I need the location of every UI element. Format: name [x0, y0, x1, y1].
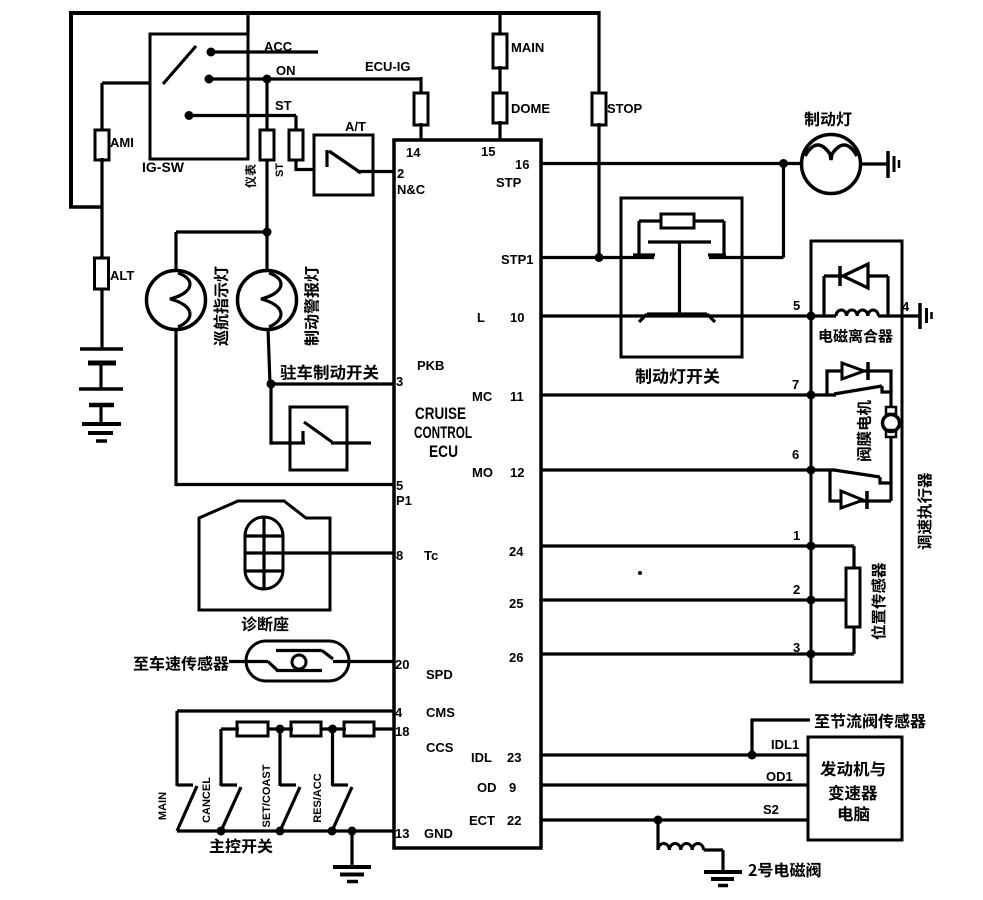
- actuator box 调速执行器: [811, 241, 902, 682]
- svg-text:6: 6: [792, 447, 799, 462]
- svg-text:5: 5: [793, 298, 800, 313]
- wire ST: [189, 114, 296, 117]
- wire pin12 MO: [541, 468, 836, 471]
- fuse STOP: [597, 11, 600, 95]
- node ST terminal: [185, 111, 194, 120]
- ignition switch IG-SW box: [150, 34, 248, 159]
- svg-text:20: 20: [395, 657, 409, 672]
- diode D2 (top): [827, 371, 891, 395]
- svg-text:9: 9: [509, 780, 516, 795]
- svg-text:5: 5: [396, 478, 403, 493]
- wire clutch to ground: [878, 314, 919, 317]
- resistor R1: [221, 727, 239, 730]
- wire: left border down: [69, 11, 73, 207]
- wire pin25 (wiper): [541, 598, 846, 601]
- svg-text:IG-SW: IG-SW: [142, 159, 185, 175]
- inductor: solenoid coil: [658, 844, 704, 851]
- switch CANCEL: [221, 787, 241, 831]
- svg-text:CRUISE: CRUISE: [415, 404, 466, 423]
- svg-text:22: 22: [507, 813, 521, 828]
- label 诊断座: [242, 616, 289, 631]
- svg-text:DOME: DOME: [511, 101, 550, 116]
- wire pin10 L to clutch coil: [541, 314, 836, 317]
- node ACC terminal: [207, 48, 216, 57]
- svg-text:3: 3: [793, 640, 800, 655]
- svg-text:STOP: STOP: [607, 101, 642, 116]
- svg-text:16: 16: [515, 157, 529, 172]
- svg-text:ECU-IG: ECU-IG: [365, 59, 411, 74]
- parking brake switch: [271, 384, 305, 443]
- op-amp: CRUISE CONTROL ECU box U1: [394, 140, 541, 848]
- label 巡航指示灯: [213, 266, 228, 345]
- svg-text:MAIN: MAIN: [157, 792, 169, 820]
- svg-text:15: 15: [481, 144, 495, 159]
- svg-text:8: 8: [396, 548, 403, 563]
- brake switch plunger: [648, 240, 711, 243]
- switch RES/ACC: [332, 787, 352, 831]
- label 制动灯开关: [635, 368, 719, 384]
- switch SET/COAST: [280, 787, 300, 831]
- label 至车速传感器: [134, 656, 229, 671]
- svg-text:IDL1: IDL1: [771, 737, 799, 752]
- svg-text:STP: STP: [496, 175, 522, 190]
- wire: ST fuse to A/T switch: [296, 168, 314, 171]
- wire: stub border to IG-SW: [246, 13, 249, 34]
- solenoid no.2: [654, 816, 663, 825]
- svg-text:N&C: N&C: [397, 182, 426, 197]
- label 2号电磁阀: [749, 862, 821, 877]
- svg-text:SET/COAST: SET/COAST: [261, 764, 273, 827]
- computer box 发动机与变速器电脑: [808, 737, 902, 840]
- wire ON / ECU-IG: [209, 77, 421, 80]
- wire pin26: [541, 652, 854, 655]
- inductor: clutch coil: [836, 310, 878, 316]
- svg-text:SPD: SPD: [426, 667, 453, 682]
- lamp 制动灯 (brake lamp): [802, 135, 861, 194]
- label 驻车制动开关: [280, 364, 378, 380]
- svg-text:13: 13: [395, 826, 409, 841]
- svg-text:CONTROL: CONTROL: [414, 423, 472, 442]
- svg-text:PKB: PKB: [417, 358, 444, 373]
- ground (clutch): [918, 303, 922, 329]
- svg-text:2: 2: [397, 166, 404, 181]
- wire pin22 ECT: [541, 818, 808, 821]
- node R2-R3: [328, 725, 337, 734]
- label 仪表 fuse: [245, 164, 256, 188]
- motor bottom blade: [834, 470, 880, 477]
- svg-text:CANCEL: CANCEL: [201, 777, 213, 823]
- wire: border to AMI line: [69, 205, 102, 209]
- svg-text:A/T: A/T: [345, 119, 366, 134]
- svg-text:RES/ACC: RES/ACC: [312, 773, 324, 823]
- svg-text:14: 14: [406, 145, 421, 160]
- svg-text:ON: ON: [276, 63, 296, 78]
- wire: AMI to battery: [100, 158, 103, 350]
- svg-text:OD1: OD1: [766, 769, 793, 784]
- label 主控开关: [210, 838, 273, 853]
- ground (battery): [82, 422, 121, 426]
- wire pin24: [541, 544, 854, 547]
- svg-text:10: 10: [510, 310, 524, 325]
- wire CANCEL drop: [219, 729, 222, 786]
- wire STP1: [541, 256, 654, 259]
- svg-text:CMS: CMS: [426, 705, 455, 720]
- fuse DOME: [498, 91, 501, 125]
- label 制动灯: [804, 112, 851, 127]
- fuse 仪表 (instrument): [263, 75, 272, 84]
- svg-text:18: 18: [395, 724, 409, 739]
- A/T switch blade: [329, 151, 361, 173]
- wire pin9 OD: [541, 783, 808, 786]
- label 调速执行器: [917, 473, 932, 550]
- brake lamp switch box 制动灯开关: [621, 198, 742, 357]
- wire pin16 STP to brake lamp: [541, 162, 802, 165]
- ground (brake lamp): [886, 151, 890, 178]
- fuse ECU-IG: [419, 77, 422, 95]
- svg-text:ECT: ECT: [469, 813, 495, 828]
- wire: top bus from battery feed: [69, 11, 599, 15]
- wire ACC: [211, 50, 318, 53]
- wire: IG-SW feed from AMI line: [102, 81, 150, 84]
- svg-text:4: 4: [395, 705, 403, 720]
- wire pin13 GND bus: [177, 829, 394, 832]
- svg-text:OD: OD: [477, 780, 497, 795]
- svg-text:CCS: CCS: [426, 740, 454, 755]
- wire lamp1 to P1 bus: [174, 328, 177, 486]
- battery: [80, 347, 123, 351]
- svg-text:3: 3: [396, 374, 403, 389]
- motor M: [886, 407, 896, 414]
- svg-text:S2: S2: [763, 802, 779, 817]
- switch MAIN: [177, 786, 197, 831]
- diode D1 across clutch: [822, 276, 825, 316]
- label 发动机与: [820, 761, 884, 777]
- svg-text:ST: ST: [274, 163, 286, 177]
- fuse AMI: [100, 83, 103, 132]
- svg-text:23: 23: [507, 750, 521, 765]
- IG-SW lever: [163, 46, 196, 84]
- svg-text:MC: MC: [472, 389, 493, 404]
- label 阀膜电机: [857, 400, 872, 461]
- svg-text:P1: P1: [396, 493, 412, 508]
- node R1-R2: [276, 725, 285, 734]
- wire pin8 Tc: [283, 551, 394, 554]
- wire STOP to STP1: [597, 123, 600, 258]
- ground (solenoid): [704, 870, 742, 874]
- svg-text:24: 24: [509, 544, 524, 559]
- svg-text:MO: MO: [472, 465, 493, 480]
- svg-text:7: 7: [792, 377, 799, 392]
- fuse MAIN: [498, 13, 501, 36]
- resistor R3: [344, 722, 374, 736]
- wire pin5 P1: [176, 483, 394, 486]
- lamp 制动警报灯: [238, 271, 297, 330]
- node ON terminal: [205, 75, 214, 84]
- resistor in brake switch: [661, 214, 694, 228]
- wire lamp2 to pin3: [268, 328, 270, 384]
- A/T switch box: [314, 135, 373, 195]
- wire MAIN to DOME: [498, 66, 501, 95]
- label 制动警报灯: [304, 266, 319, 345]
- wire lamp feed: [176, 230, 267, 233]
- wire lamp to ground: [860, 162, 888, 165]
- fuse ALT: [100, 256, 103, 291]
- wire pin23 IDL: [541, 753, 808, 756]
- diode D3 (bottom): [830, 470, 891, 501]
- svg-text:1: 1: [793, 528, 800, 543]
- label 电磁离合器: [820, 329, 893, 343]
- svg-text:26: 26: [509, 650, 523, 665]
- wire pin11 MC: [541, 393, 836, 396]
- svg-text:L: L: [477, 310, 485, 325]
- wire pin3 PKB: [271, 382, 394, 385]
- svg-text:ECU: ECU: [429, 442, 458, 461]
- label 电脑: [839, 806, 869, 822]
- label 变速器: [829, 785, 878, 801]
- svg-text:AMI: AMI: [110, 135, 134, 150]
- label 至节流阀传感器: [815, 713, 926, 728]
- svg-text:11: 11: [510, 389, 524, 404]
- resistor: position sensor: [846, 568, 860, 627]
- resistor R2: [291, 722, 321, 736]
- svg-text:25: 25: [509, 596, 523, 611]
- svg-text:IDL: IDL: [471, 750, 492, 765]
- diagnostic connector 诊断座: [199, 501, 330, 610]
- svg-text:12: 12: [510, 465, 524, 480]
- svg-text:GND: GND: [424, 826, 453, 841]
- svg-text:STP1: STP1: [501, 252, 534, 267]
- wire: A/T to ECU pin 2: [357, 170, 394, 173]
- ground (main switch): [350, 831, 353, 867]
- label 位置传感器: [871, 563, 886, 640]
- svg-text:ACC: ACC: [264, 39, 293, 54]
- svg-text:Tc: Tc: [424, 548, 438, 563]
- svg-text:2: 2: [793, 582, 800, 597]
- svg-text:MAIN: MAIN: [511, 40, 544, 55]
- lamp 巡航指示灯: [147, 271, 206, 330]
- svg-text:ST: ST: [275, 98, 292, 113]
- wire pin20 SPD: [333, 660, 394, 663]
- motor top blade: [834, 386, 882, 394]
- fuse ST: [294, 116, 297, 172]
- wire pin4 CMS: [177, 709, 394, 712]
- node junction to brake switch: [779, 159, 788, 168]
- svg-text:ALT: ALT: [110, 268, 134, 283]
